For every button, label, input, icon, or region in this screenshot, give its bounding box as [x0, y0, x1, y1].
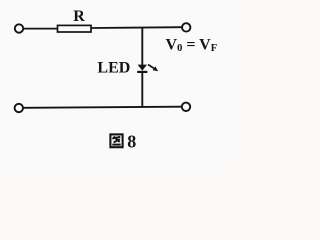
LED D1 triangle (anode): [138, 65, 147, 71]
terminal top-right: [182, 23, 190, 31]
svg-text:LED: LED: [97, 60, 130, 77]
LED D1 cathode bar: [137, 71, 147, 73]
wire bottom: [23, 107, 182, 108]
resistor R1 body: [58, 25, 92, 32]
svg-text:R: R: [73, 8, 85, 25]
terminal top-left: [15, 24, 23, 32]
LED emission arrow: [148, 65, 154, 69]
wire vertical from top node to LED anode: [141, 27, 143, 65]
svg-text:V0 = VF: V0 = VF: [166, 36, 218, 54]
terminal bottom-right: [182, 103, 190, 111]
wire top-left to resistor: [23, 28, 57, 30]
svg-text:8: 8: [127, 131, 136, 151]
wire resistor to top-right terminal: [91, 26, 182, 29]
caption glyph 图 (drawn): [110, 134, 122, 147]
wire LED cathode to bottom wire: [141, 73, 143, 107]
terminal bottom-left: [15, 104, 23, 112]
